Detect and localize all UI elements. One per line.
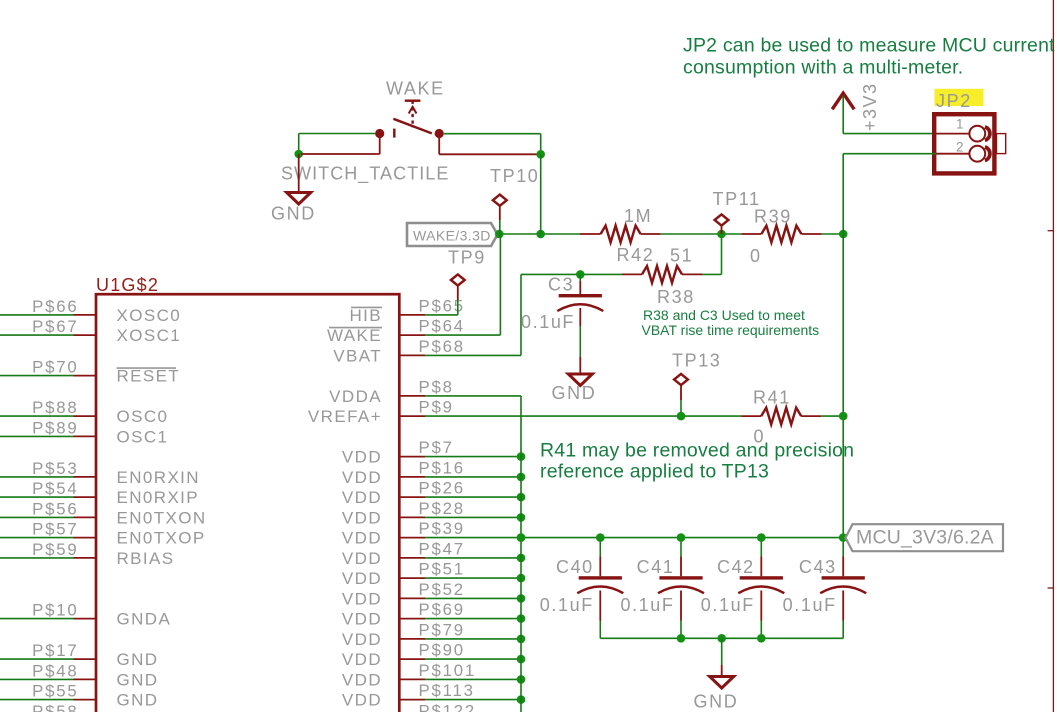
svg-text:C42: C42 [717, 557, 755, 577]
svg-text:P$79: P$79 [419, 620, 465, 639]
pin P$55 (GND) left [0, 699, 74, 701]
pin P$10 (GNDA) left [0, 618, 74, 620]
resistor R42 1M [580, 233, 601, 235]
svg-text:WAKE: WAKE [327, 326, 382, 345]
connector JP2 key [997, 134, 1006, 154]
svg-text:P$66: P$66 [32, 297, 78, 316]
junction bottom row [757, 634, 766, 643]
svg-text:R39: R39 [754, 207, 792, 227]
pin P$59 (RBIAS) left [0, 557, 74, 559]
svg-text:P$70: P$70 [32, 358, 78, 377]
svg-text:VDD: VDD [342, 650, 382, 669]
pin P$57 (EN0TXOP) left [0, 537, 74, 539]
junction VDD bus [517, 614, 526, 623]
svg-text:R38: R38 [657, 287, 695, 307]
junction flag/TP10 [495, 230, 504, 239]
svg-text:P$53: P$53 [32, 459, 78, 478]
svg-text:VDD: VDD [342, 589, 382, 608]
svg-text:P$64: P$64 [419, 317, 465, 336]
svg-text:0.1uF: 0.1uF [521, 312, 575, 332]
wire +3V3 to JP2 pin1 [842, 96, 844, 134]
pin P$7 (VDD) right [399, 456, 425, 458]
net flag MCU_3V3/6.2A [846, 524, 1004, 551]
svg-text:VDD: VDD [342, 549, 382, 568]
capacitor C40 0.1uF [599, 538, 601, 557]
svg-text:P$57: P$57 [32, 520, 78, 539]
svg-text:P$69: P$69 [419, 600, 465, 619]
junction C41 top [677, 533, 686, 542]
connector JP2 body [934, 114, 994, 173]
pin P$101 (VDD) right [399, 678, 425, 680]
pin P$68 (VBAT) right [399, 354, 425, 356]
svg-text:C3: C3 [548, 275, 574, 295]
svg-text:P$101: P$101 [419, 661, 477, 680]
svg-text:P$10: P$10 [32, 601, 78, 620]
wire MCU_3V3 rail vertical [842, 154, 844, 234]
svg-text:P$55: P$55 [32, 682, 78, 701]
svg-text:EN0TXON: EN0TXON [117, 508, 207, 527]
svg-text:P$59: P$59 [32, 540, 78, 559]
svg-text:+3V3: +3V3 [860, 82, 880, 131]
wire VDD row to bus [425, 456, 521, 458]
svg-text:VBAT: VBAT [333, 346, 382, 365]
svg-text:VDD: VDD [342, 529, 382, 548]
wire R42 to TP11 [661, 233, 742, 235]
svg-text:U1G$2: U1G$2 [96, 275, 159, 295]
svg-text:C43: C43 [799, 557, 837, 577]
svg-text:P$48: P$48 [32, 661, 78, 680]
pin P$54 (EN0RXIP) left [0, 496, 74, 498]
svg-text:XOSC0: XOSC0 [117, 306, 182, 325]
svg-text:GNDA: GNDA [117, 610, 172, 629]
wire VDD row to bus [425, 496, 521, 498]
svg-text:2: 2 [956, 140, 964, 155]
junction VDD bus [517, 574, 526, 583]
svg-text:GND: GND [694, 692, 739, 712]
resistor R39 0 [741, 233, 761, 235]
svg-text:VDD: VDD [342, 468, 382, 487]
pin P$69 (VDD) right [399, 618, 425, 620]
svg-text:P$68: P$68 [419, 337, 465, 356]
svg-text:VDD: VDD [342, 488, 382, 507]
svg-text:P$26: P$26 [419, 479, 465, 498]
wire switch drop to WAKE row [540, 154, 542, 234]
svg-text:VDD: VDD [342, 569, 382, 588]
svg-text:GND: GND [117, 691, 159, 710]
svg-text:R41: R41 [753, 388, 791, 408]
pin P$88 (OSC0) left [0, 415, 74, 417]
wire VDD row to bus [425, 577, 521, 579]
svg-text:RBIAS: RBIAS [117, 549, 175, 568]
junction switch drop [536, 230, 545, 239]
junction C3 top [576, 270, 585, 279]
svg-text:0: 0 [754, 427, 766, 447]
svg-text:P$88: P$88 [32, 398, 78, 417]
svg-text:C41: C41 [637, 557, 675, 577]
junction VDD bus [517, 635, 526, 644]
wire HIB P$65 to TP9 [425, 314, 458, 316]
svg-text:VREFA+: VREFA+ [308, 407, 382, 426]
svg-text:1M: 1M [624, 206, 652, 226]
wire VDD row to bus [425, 658, 521, 660]
wire VDD row to bus [425, 476, 521, 478]
junction rail/R41 [839, 412, 848, 421]
wire vertical bus MCU_3V3 [520, 396, 522, 712]
pin P$89 (OSC1) left [0, 435, 74, 437]
switch actuator [405, 99, 421, 101]
junction VDD bus [517, 533, 526, 542]
pin P$56 (EN0TXON) left [0, 516, 74, 518]
wire decoupling top row [521, 537, 843, 539]
svg-text:JP2: JP2 [936, 91, 972, 111]
svg-text:0.1uF: 0.1uF [620, 595, 674, 615]
svg-text:TP13: TP13 [672, 351, 721, 371]
svg-text:GND: GND [552, 383, 597, 403]
resistor R41 0 [741, 415, 761, 417]
sheet frame right border [1052, 0, 1054, 712]
wire VDD row to bus [425, 638, 521, 640]
svg-text:VDD: VDD [342, 610, 382, 629]
capacitor C43 0.1uF [842, 538, 844, 557]
svg-text:reference applied to TP13: reference applied to TP13 [540, 460, 769, 482]
junction VDD bus [517, 554, 526, 563]
junction switch right [536, 150, 545, 159]
svg-text:0.1uF: 0.1uF [540, 595, 594, 615]
svg-text:P$56: P$56 [32, 499, 78, 518]
junction VDD bus [517, 675, 526, 684]
svg-text:P$7: P$7 [419, 438, 454, 457]
svg-text:SWITCH_TACTILE: SWITCH_TACTILE [281, 164, 449, 185]
pin P$90 (VDD) right [399, 658, 425, 660]
pin P$9 (VREFA+) right [399, 415, 425, 417]
svg-text:51: 51 [670, 246, 693, 266]
svg-text:VBAT rise time requirements: VBAT rise time requirements [642, 322, 820, 338]
svg-text:P$67: P$67 [32, 317, 78, 336]
junction VDD bus [517, 452, 526, 461]
svg-text:VDD: VDD [342, 508, 382, 527]
svg-text:C40: C40 [556, 557, 594, 577]
pin P$17 (GND) left [0, 658, 74, 660]
junction VDD bus [517, 655, 526, 664]
pin P$66 (XOSC0) left [0, 314, 74, 316]
svg-text:R42: R42 [617, 245, 655, 265]
ground below caps [721, 638, 723, 665]
pin P$47 (VDD) right [399, 557, 425, 559]
switch pin left L [301, 153, 380, 155]
wire VDD row to bus [425, 516, 521, 518]
pin P$67 (XOSC1) left [0, 334, 74, 336]
svg-text:P$52: P$52 [419, 580, 465, 599]
pin P$16 (VDD) right [399, 476, 425, 478]
svg-text:consumption with a multi-meter: consumption with a multi-meter. [683, 57, 963, 79]
svg-text:P$89: P$89 [32, 418, 78, 437]
wire VDD row to bus [425, 678, 521, 680]
svg-text:R38 and C3 Used to meet: R38 and C3 Used to meet [643, 307, 805, 323]
pin P$70 (RESET) left [0, 375, 74, 377]
svg-text:OSC0: OSC0 [117, 407, 169, 426]
wire decoupling bottom row [600, 637, 843, 639]
svg-text:XOSC1: XOSC1 [117, 326, 182, 345]
svg-text:HIB: HIB [349, 306, 382, 325]
wire VDD row to bus [425, 537, 521, 539]
svg-text:P$17: P$17 [32, 641, 78, 660]
junction C42 top [757, 533, 766, 542]
svg-text:OSC1: OSC1 [117, 427, 169, 446]
svg-text:1: 1 [956, 117, 964, 132]
svg-text:P$90: P$90 [419, 641, 465, 660]
resistor R38 51 [622, 273, 642, 275]
switch contact left [375, 129, 384, 138]
pin P$26 (VDD) right [399, 496, 425, 498]
switch contact right [435, 129, 444, 138]
svg-text:P$39: P$39 [419, 519, 465, 538]
wire switch left top [299, 133, 376, 135]
svg-text:P$28: P$28 [419, 499, 465, 518]
svg-text:R41 may be removed and precisi: R41 may be removed and precision [540, 439, 854, 461]
junction rail/R39 [839, 230, 848, 239]
svg-text:P$8: P$8 [419, 377, 454, 396]
junction switch/GND [294, 150, 303, 159]
junction VDD bus [517, 513, 526, 522]
net flag WAKE/3.3D [407, 223, 498, 246]
svg-text:0: 0 [750, 246, 762, 266]
svg-text:VDD: VDD [342, 670, 382, 689]
wire JP2 pin2 to rail [936, 153, 969, 155]
svg-text:P$47: P$47 [419, 539, 465, 558]
pin P$64 (WAKE) right [399, 334, 425, 336]
pin P$65 (HIB) right [399, 314, 425, 316]
svg-text:VDDA: VDDA [329, 387, 382, 406]
wire R39 to 3V3 rail [821, 233, 843, 235]
junction TP11 [717, 230, 726, 239]
pin P$52 (VDD) right [399, 597, 425, 599]
junction VDD bus [517, 695, 526, 704]
wire C3 node row [521, 273, 622, 275]
svg-text:0.1uF: 0.1uF [701, 595, 755, 615]
wire VDDA P$8 to bus corner [425, 395, 521, 397]
pin P$48 (GND) left [0, 678, 74, 680]
ground below C3 [579, 357, 581, 374]
capacitor C42 0.1uF [760, 538, 762, 557]
wire VDD row to bus [425, 618, 521, 620]
svg-text:WAKE: WAKE [386, 79, 445, 99]
svg-text:GND: GND [271, 203, 316, 223]
wire WAKE vertical to P$64 [499, 234, 501, 335]
svg-text:EN0TXOP: EN0TXOP [117, 529, 206, 548]
wire VREFA+ row P$9 [425, 415, 741, 417]
wire vertical VBAT to C3 node [520, 274, 522, 355]
wire VDD row to bus [425, 699, 521, 701]
wire WAKE row [498, 233, 581, 235]
ic U1G$2 box [96, 294, 399, 712]
pin P$51 (VDD) right [399, 577, 425, 579]
wire VDD row to bus [425, 557, 521, 559]
svg-text:P$16: P$16 [419, 458, 465, 477]
svg-text:MCU_3V3/6.2A: MCU_3V3/6.2A [856, 527, 994, 549]
junction TP13 [677, 412, 686, 421]
junction VDD bus [517, 473, 526, 482]
svg-text:EN0RXIP: EN0RXIP [117, 488, 200, 507]
switch lever [393, 119, 431, 134]
svg-text:P$58: P$58 [32, 702, 78, 712]
svg-text:TP10: TP10 [490, 166, 539, 186]
svg-text:VDD: VDD [342, 691, 382, 710]
svg-text:TP9: TP9 [448, 248, 486, 268]
svg-text:P$122: P$122 [419, 701, 477, 712]
supply +3V3 arrow [832, 93, 854, 109]
svg-text:GND: GND [117, 650, 159, 669]
pin P$79 (VDD) right [399, 638, 425, 640]
wire VBAT P$68 [425, 354, 521, 356]
svg-text:P$51: P$51 [419, 560, 465, 579]
highlight JP2 [935, 89, 984, 106]
svg-text:P$54: P$54 [32, 479, 78, 498]
pin P$39 (VDD) right [399, 537, 425, 539]
svg-text:VDD: VDD [342, 630, 382, 649]
svg-text:GND: GND [117, 670, 159, 689]
pin P$53 (EN0RXIN) left [0, 476, 74, 478]
wire R38 to TP11 node [702, 273, 722, 275]
svg-text:WAKE/3.3D: WAKE/3.3D [413, 228, 491, 244]
pin P$8 (VDDA) right [399, 395, 425, 397]
svg-text:EN0RXIN: EN0RXIN [117, 468, 201, 487]
junction VDD bus [517, 594, 526, 603]
pin P$28 (VDD) right [399, 516, 425, 518]
junction bottom row [677, 634, 686, 643]
ground below switch [298, 154, 300, 193]
junction C40 top [596, 533, 605, 542]
capacitor C3 [579, 274, 581, 281]
switch pin right L [438, 138, 440, 155]
switch fixed contact tick [393, 129, 395, 138]
svg-text:P$113: P$113 [419, 681, 475, 700]
capacitor C41 0.1uF [680, 538, 682, 557]
wire VDD row to bus [425, 597, 521, 599]
svg-text:P$9: P$9 [419, 398, 454, 417]
svg-text:VDD: VDD [342, 448, 382, 467]
svg-text:0.1uF: 0.1uF [783, 595, 837, 615]
junction bottom row [717, 634, 726, 643]
junction VDD bus [517, 493, 526, 502]
svg-text:JP2 can be used to measure MCU: JP2 can be used to measure MCU current [683, 35, 1055, 57]
wire R41 to rail [821, 415, 843, 417]
wire switch right top [444, 133, 541, 135]
pin P$113 (VDD) right [399, 699, 425, 701]
junction rail caps row [839, 533, 848, 542]
svg-text:RESET: RESET [117, 367, 181, 386]
